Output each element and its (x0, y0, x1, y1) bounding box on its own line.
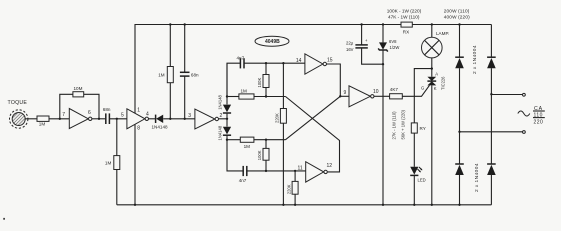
svg-text:10M: 10M (74, 86, 83, 91)
wire U1b out to D1 (149, 118, 156, 120)
svg-text:1M: 1M (244, 144, 251, 149)
wire LED to ground (413, 175, 415, 204)
wire out10 to 4K7 (374, 95, 390, 97)
svg-text:+: + (365, 38, 368, 43)
wire node2 column vertical lower (227, 135, 243, 171)
node K junction (294, 170, 296, 172)
resistor 1M upper mono (239, 89, 254, 100)
diode D2 1N4148 (upper, down) (218, 94, 232, 113)
triac TIC226 (421, 71, 446, 90)
node MT2 junction (431, 67, 433, 69)
svg-text:100K - 1W (220): 100K - 1W (220) (387, 9, 422, 14)
svg-text:11: 11 (298, 165, 303, 171)
svg-text:3: 3 (188, 113, 191, 119)
svg-text:68n: 68n (103, 107, 111, 112)
node E junction (184, 118, 186, 120)
svg-text:TOQUE: TOQUE (8, 100, 28, 106)
node JL junction (226, 139, 228, 141)
svg-text:4n7: 4n7 (239, 178, 247, 183)
AC source symbol (518, 106, 545, 125)
lamp LAMP. (422, 9, 471, 58)
wire top supply rail (135, 25, 491, 114)
svg-text:2 x 1N4004: 2 x 1N4004 (472, 45, 478, 74)
bridge column A (455, 23, 464, 206)
capacitor 4n7 lower (239, 166, 247, 183)
ground junction triac (431, 204, 433, 206)
svg-text:12: 12 (327, 163, 333, 169)
wire upper mono top left (227, 63, 240, 96)
node C junction (116, 118, 118, 120)
node I junction (265, 139, 267, 141)
node J junction (265, 170, 267, 172)
svg-text:1M: 1M (105, 161, 112, 166)
wire 1M to crossover bend (254, 96, 286, 98)
wire 4n7 to pin 14 (244, 62, 305, 64)
svg-text:100K: 100K (257, 150, 262, 160)
resistor 220K upper (275, 63, 287, 205)
capacitor 22u 16V (346, 23, 383, 64)
svg-text:1N4148: 1N4148 (218, 125, 223, 140)
svg-text:1/2W: 1/2W (390, 45, 400, 50)
svg-text:14: 14 (296, 58, 302, 64)
wire crossover D2 (to pin9 node) (286, 96, 341, 139)
wire crossover D1 (to out12) (286, 97, 340, 172)
wire bottom ground rail (117, 204, 492, 206)
svg-text:1M: 1M (158, 73, 165, 78)
wire 1M lower to crossover bend (254, 139, 286, 141)
resistor 4K7 (390, 87, 403, 99)
svg-text:1: 1 (137, 107, 140, 113)
svg-text:7: 7 (62, 112, 65, 118)
svg-text:8: 8 (137, 126, 140, 132)
wire pin9 to U1f (340, 95, 349, 97)
wire R to ground rail (116, 170, 118, 205)
capacitor C 68n series (103, 107, 111, 124)
resistor 100K lower (257, 140, 269, 171)
node out15 junction (339, 95, 341, 97)
svg-text:1M: 1M (39, 121, 46, 126)
ground rail junction pin8 (134, 204, 136, 206)
wire D1 to U1c input (163, 118, 195, 120)
wire U1a out to C 68n (92, 118, 105, 120)
resistor 10M feedback (73, 86, 84, 97)
diode D1 1N4148 (152, 115, 169, 130)
node G junction (282, 62, 284, 64)
node JU junction (226, 95, 228, 97)
node H junction (265, 95, 267, 97)
wire AC terminal 1 (491, 94, 522, 96)
svg-text:27K - 1W (110): 27K - 1W (110) (392, 111, 397, 140)
rail junction 68n column (184, 23, 186, 25)
wire C to U1b input (109, 118, 127, 120)
svg-text:TIC226: TIC226 (441, 76, 446, 90)
wire feedback right vertical (84, 94, 99, 119)
svg-text:1N4148: 1N4148 (152, 125, 169, 130)
wire JU to 1M upper (227, 96, 239, 98)
bridge column B (487, 25, 496, 205)
node zener junction (382, 63, 384, 65)
svg-text:100K: 100K (257, 78, 262, 88)
svg-text:220: 220 (534, 119, 544, 125)
svg-text:K: K (434, 86, 437, 91)
svg-text:4n7: 4n7 (237, 55, 245, 60)
resistor 1M lower mono (240, 137, 254, 149)
wire RY to LED (413, 133, 415, 167)
svg-text:LED: LED (418, 178, 426, 183)
svg-text:56K + 1W (220): 56K + 1W (220) (401, 109, 406, 139)
svg-text:68n: 68n (191, 72, 199, 77)
ground junction 220K lower (294, 204, 296, 206)
wire 1M column vertical (169, 25, 171, 67)
inverter U1b (127, 109, 149, 129)
touch plate TOQUE (8, 100, 28, 128)
svg-text:RY: RY (420, 126, 426, 131)
diode D3 1N4148 (lower, down) (218, 125, 232, 140)
wire between diodes (226, 113, 228, 127)
resistor RY (392, 109, 426, 139)
svg-text:6: 6 (88, 110, 91, 116)
inverter U1a (69, 109, 92, 129)
resistor R 1M (to ground) (105, 156, 120, 170)
svg-text:4K7: 4K7 (390, 87, 399, 92)
svg-text:1N4148: 1N4148 (218, 94, 223, 109)
wire node C down to R 1M (116, 119, 118, 156)
svg-text:4: 4 (146, 111, 149, 117)
resistor 1M (column) (158, 67, 173, 83)
svg-text:RX: RX (403, 30, 409, 35)
svg-text:1M: 1M (241, 89, 248, 94)
ground junction 220K upper (282, 204, 284, 206)
inverter U1d (306, 162, 328, 182)
svg-text:2: 2 (220, 113, 223, 119)
terminal 1 (523, 93, 526, 96)
resistor 100K upper (257, 63, 269, 96)
wire lamp to triac (431, 58, 433, 77)
IC oval label 4049B (255, 36, 289, 46)
wire AC terminal 2 (460, 131, 523, 133)
svg-text:G: G (421, 86, 424, 91)
svg-text:6V8: 6V8 (389, 39, 397, 44)
node F junction (265, 62, 267, 64)
svg-text:4049B: 4049B (265, 39, 280, 45)
inverter U1f (349, 86, 374, 107)
scan speck bottom-left (3, 218, 5, 220)
capacitor 4n7 upper (237, 55, 245, 68)
node B junction (98, 118, 100, 120)
wire 68n column vertical (184, 25, 186, 73)
node 2 junction (226, 118, 228, 120)
inverter U1c (195, 109, 219, 129)
wire touch plate to R1 (25, 118, 37, 120)
svg-text:400W (220): 400W (220) (444, 15, 470, 20)
wire 68n column lower (184, 76, 186, 119)
wire triac to ground rail (431, 85, 433, 204)
svg-text:16V: 16V (346, 47, 354, 52)
wire U1c out to diode column (219, 118, 228, 120)
wire JL to 1M lower (227, 139, 240, 141)
svg-text:10: 10 (373, 89, 379, 95)
svg-text:220K: 220K (275, 113, 280, 123)
inverter U1e (305, 54, 327, 74)
svg-text:200W (110): 200W (110) (444, 9, 470, 14)
wire out15 to pin9 node (327, 64, 341, 96)
LED indicator (410, 167, 425, 183)
wire RY branch top (414, 69, 432, 123)
svg-text:5: 5 (121, 113, 124, 119)
wire feedback left vertical (60, 94, 73, 119)
ground junction LED (413, 204, 415, 206)
wire 4n7 to pin 11 (247, 170, 306, 172)
wire node2 column vertical upper (226, 63, 228, 104)
svg-text:47K - 1W (110): 47K - 1W (110) (388, 15, 420, 20)
svg-text:2 x 1N4004: 2 x 1N4004 (474, 163, 480, 192)
wire 4K7 to gate (402, 85, 429, 96)
rail junction 1M column (169, 23, 171, 25)
wire pin 8 down to ground (134, 124, 136, 205)
wire 1M column lower (169, 83, 171, 119)
node D junction (169, 118, 171, 120)
wire R1 to node A (49, 118, 69, 120)
capacitor 68n (column) (180, 72, 199, 77)
svg-text:LAMP.: LAMP. (436, 31, 449, 36)
node A junction (59, 118, 61, 120)
svg-text:A: A (435, 71, 438, 76)
svg-text:15: 15 (327, 58, 333, 64)
svg-text:220K: 220K (286, 184, 291, 194)
resistor 220K lower (286, 171, 298, 205)
zener diode 6V8 (378, 23, 399, 206)
terminal 2 (523, 131, 526, 134)
svg-text:22µ: 22µ (346, 41, 354, 46)
resistor RX (series in rail) (387, 9, 422, 35)
svg-text:9: 9 (344, 90, 347, 96)
resistor R 1M (input) (37, 116, 49, 126)
